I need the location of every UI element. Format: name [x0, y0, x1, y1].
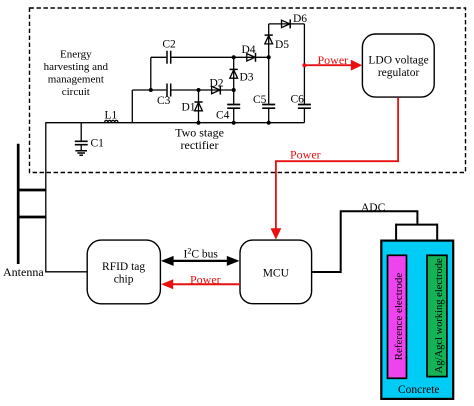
wire: D6 branch — [269, 23, 305, 25]
svg-text:D3: D3 — [240, 71, 254, 83]
svg-text:D2: D2 — [210, 77, 224, 89]
diode D5 — [268, 24, 270, 57]
wire: vertical between C3 branch and C2 branch — [150, 57, 152, 90]
svg-text:D1: D1 — [182, 102, 196, 114]
antenna — [17, 144, 46, 264]
wire: I2C bus double arrow — [172, 260, 229, 262]
capacitor C4 — [233, 90, 235, 104]
node: D3 bottom / C4 top — [232, 88, 236, 92]
diode D2 — [212, 86, 220, 93]
svg-text:D6: D6 — [293, 13, 307, 25]
svg-text:management: management — [48, 74, 104, 86]
svg-text:Concrete: Concrete — [398, 384, 440, 396]
MCU box — [240, 240, 312, 304]
svg-text:C6: C6 — [291, 93, 305, 105]
reference electrode — [388, 255, 407, 378]
diode D1 — [198, 90, 200, 123]
inductor L1 — [105, 120, 119, 122]
label: Energy harvesting and management circuit — [44, 49, 109, 99]
wire: riser from rail to C3 branch — [131, 90, 133, 123]
svg-text:circuit: circuit — [62, 86, 90, 98]
svg-text:C1: C1 — [91, 137, 105, 149]
capacitor C3 — [167, 84, 171, 97]
node: D4 right / D5 bottom / C5 top — [267, 55, 271, 59]
capacitor C6 — [303, 24, 305, 104]
diode D4 — [247, 54, 255, 61]
capacitor C1 — [80, 123, 82, 141]
svg-text:Power: Power — [190, 272, 221, 286]
svg-text:RFID tag: RFID tag — [102, 261, 145, 273]
svg-text:ADC: ADC — [361, 202, 386, 214]
svg-text:C5: C5 — [253, 94, 267, 106]
wire: C2 branch — [151, 56, 269, 58]
node: red power tap on C6 — [302, 63, 306, 67]
node: D1 bottom — [197, 121, 201, 125]
wire: ADC net from MCU — [312, 211, 418, 272]
diode D6 — [282, 20, 290, 27]
node: D3 top — [232, 55, 236, 59]
wire: left vertical from rail down to RFID chip — [46, 122, 87, 272]
RFID tag chip box — [87, 240, 160, 304]
ground — [75, 151, 87, 156]
wire: drop to reference electrode — [395, 224, 397, 256]
svg-text:Ag/Agcl working electrode: Ag/Agcl working electrode — [434, 258, 445, 373]
dashed boundary of energy harvesting block — [30, 8, 466, 173]
concrete block — [381, 241, 453, 399]
node: C3-branch left junction — [149, 88, 153, 92]
capacitor C2 — [167, 51, 171, 64]
node: D1 top — [197, 88, 201, 92]
diode D3 — [233, 57, 235, 90]
svg-text:Energy: Energy — [60, 49, 92, 61]
svg-text:C2: C2 — [162, 39, 176, 51]
svg-text:rectifier: rectifier — [181, 138, 219, 152]
svg-text:chip: chip — [114, 274, 134, 286]
wire: C3 branch — [132, 89, 233, 91]
wire: drop to working electrode — [436, 224, 438, 256]
svg-text:Antenna: Antenna — [3, 265, 44, 279]
svg-text:regulator: regulator — [378, 67, 420, 79]
svg-text:C3: C3 — [157, 95, 171, 107]
wire: electrode branch header — [396, 224, 437, 226]
wire: red power to LDO — [304, 64, 351, 66]
svg-text:harvesting and: harvesting and — [44, 61, 109, 73]
label: Two stage rectifier — [175, 125, 224, 152]
svg-text:L1: L1 — [105, 109, 118, 121]
svg-text:D5: D5 — [275, 39, 289, 51]
svg-text:MCU: MCU — [263, 268, 290, 280]
block U1: LDO voltage regulator — [362, 34, 434, 97]
svg-text:Reference electrode: Reference electrode — [393, 273, 405, 361]
wire: red power LDO to MCU — [276, 97, 398, 229]
svg-text:LDO voltage: LDO voltage — [368, 55, 428, 67]
wire: red power MCU to RFID — [172, 283, 241, 285]
Ag/AgCl working electrode — [427, 255, 447, 376]
svg-text:D4: D4 — [242, 44, 256, 56]
svg-text:Power: Power — [318, 53, 349, 67]
svg-text:Power: Power — [290, 147, 321, 161]
node: C4 bottom — [232, 121, 236, 125]
node: C5 bottom — [267, 121, 271, 125]
wire: main bottom rail — [46, 122, 305, 124]
svg-text:C4: C4 — [216, 109, 230, 121]
capacitor C5 — [268, 57, 270, 103]
